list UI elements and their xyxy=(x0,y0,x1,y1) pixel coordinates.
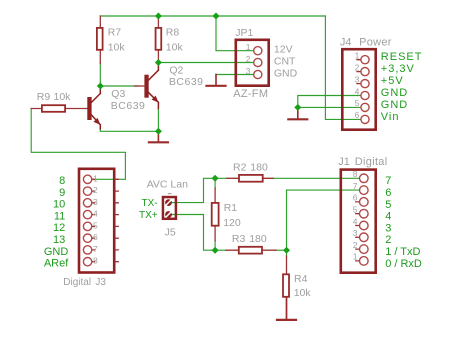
svg-text:8: 8 xyxy=(93,256,98,266)
svg-text:2: 2 xyxy=(385,234,391,246)
svg-text:1: 1 xyxy=(355,51,360,61)
svg-text:GND: GND xyxy=(381,99,408,111)
resistor R7 leads xyxy=(99,16,101,64)
connector J4 box xyxy=(342,49,375,130)
connector J3 pin numbers xyxy=(93,173,98,265)
svg-text:2: 2 xyxy=(246,54,251,64)
resistor R3 leads xyxy=(226,249,276,251)
junction at rail and R8 xyxy=(155,13,162,20)
wire Vin drop to J4 pin 6 xyxy=(325,16,361,119)
ground below R4 xyxy=(286,297,288,319)
wire JP1 pin 2 to Q2 collector xyxy=(158,62,254,64)
svg-text:+5V: +5V xyxy=(381,75,404,87)
svg-text:2: 2 xyxy=(93,185,98,195)
svg-text:12V: 12V xyxy=(274,44,293,56)
svg-text:11: 11 xyxy=(54,211,65,223)
resistor R3 xyxy=(239,247,262,254)
wire Q3 emitter bus to ground xyxy=(100,129,158,132)
svg-text:Power: Power xyxy=(359,37,392,49)
wire node A to R2 xyxy=(215,177,228,179)
svg-text:Q3: Q3 xyxy=(111,88,125,100)
resistor R2 xyxy=(239,175,263,182)
junction at J4 ground node xyxy=(294,104,301,111)
svg-text:180: 180 xyxy=(250,161,268,173)
wire node B to R3 xyxy=(215,249,227,251)
svg-text:6: 6 xyxy=(355,110,360,120)
resistor R4 xyxy=(283,274,289,297)
svg-text:1: 1 xyxy=(93,173,98,183)
svg-text:0 / RxD: 0 / RxD xyxy=(385,258,422,270)
svg-text:12: 12 xyxy=(53,222,65,234)
resistor R9 xyxy=(42,105,65,112)
svg-text:BC639: BC639 xyxy=(111,100,146,112)
svg-text:10k: 10k xyxy=(54,91,72,103)
wire R1 to node B xyxy=(214,240,216,250)
resistor R7 xyxy=(97,28,103,50)
ground near J4 xyxy=(297,107,299,118)
connector J3 pins xyxy=(83,175,118,266)
connector J1 pin numbers xyxy=(353,169,358,262)
svg-text:1: 1 xyxy=(246,42,251,52)
wire R2 to J1 pin 8 xyxy=(272,177,360,179)
wire R7 to Q2 base xyxy=(100,63,138,86)
svg-text:Vin: Vin xyxy=(381,111,400,123)
svg-text:CNT: CNT xyxy=(274,55,296,67)
svg-text:R2: R2 xyxy=(233,161,247,173)
connector J1 box xyxy=(341,170,376,273)
svg-text:6: 6 xyxy=(93,232,98,242)
svg-text:5: 5 xyxy=(385,199,391,211)
svg-text:1: 1 xyxy=(353,252,358,262)
junction at R7 bottom and Q2 base xyxy=(97,83,104,90)
connector JP1 pin 3 xyxy=(254,70,262,78)
resistor R1 xyxy=(212,203,219,226)
svg-text:3: 3 xyxy=(385,222,391,234)
resistor R1 leads xyxy=(214,188,216,241)
svg-text:GND: GND xyxy=(381,87,408,99)
connector J1 pins xyxy=(356,174,368,265)
connector J4 pin numbers xyxy=(355,51,360,121)
svg-text:AZ-FM: AZ-FM xyxy=(233,88,268,100)
svg-text:3: 3 xyxy=(93,197,98,207)
resistor R8 xyxy=(156,28,162,50)
svg-text:4: 4 xyxy=(385,211,391,223)
wire JP1 pin 1 from rail xyxy=(216,16,254,51)
connector J4 pins xyxy=(357,56,369,124)
wire J1 pin 7 to R3 node xyxy=(287,190,360,250)
wire R3 to node C xyxy=(275,249,287,251)
wire TX- to R1 top node xyxy=(172,178,215,202)
svg-text:10: 10 xyxy=(53,199,65,211)
svg-text:J5: J5 xyxy=(165,227,176,239)
wire 12V rail xyxy=(100,15,325,17)
svg-text:TX+: TX+ xyxy=(139,210,158,221)
transistor Q3 xyxy=(88,86,101,129)
svg-text:GND: GND xyxy=(44,246,69,258)
connector J3 box xyxy=(79,169,114,273)
svg-text:GND: GND xyxy=(274,67,298,79)
transistor Q2 xyxy=(135,63,159,109)
ground near JP1 pin 3 xyxy=(215,75,217,85)
connector JP1 pin 2 xyxy=(254,58,262,66)
svg-text:R1: R1 xyxy=(224,202,238,214)
svg-text:ARef: ARef xyxy=(44,258,69,270)
svg-text:9: 9 xyxy=(59,187,65,199)
svg-text:JP1: JP1 xyxy=(235,27,253,39)
ground near Q2 Q3 emitters xyxy=(157,131,159,141)
connector J5 pin 1 xyxy=(165,199,172,206)
svg-text:10k: 10k xyxy=(294,287,312,299)
junction node B R1 bottom xyxy=(212,247,219,254)
svg-text:R4: R4 xyxy=(294,273,308,285)
wire node A to R1 xyxy=(214,178,216,189)
svg-text:AVC Lan: AVC Lan xyxy=(147,178,188,190)
svg-text:Digital: Digital xyxy=(63,277,91,288)
resistor R9 leads xyxy=(31,108,87,110)
wire ground to J4 pin 5 xyxy=(298,106,361,108)
svg-text:4: 4 xyxy=(93,209,98,219)
svg-text:J3: J3 xyxy=(95,277,106,288)
svg-text:+3,3V: +3,3V xyxy=(381,63,415,75)
svg-text:8: 8 xyxy=(353,169,358,179)
wire JP1 pin 3 to ground xyxy=(216,74,254,76)
junction at rail and JP1 drop xyxy=(213,13,220,20)
svg-text:8: 8 xyxy=(59,175,65,187)
svg-text:3: 3 xyxy=(246,66,251,76)
connector J5 pin 1 marker xyxy=(169,193,171,195)
svg-text:2: 2 xyxy=(355,62,360,72)
junction at emitter ground node xyxy=(155,128,162,135)
svg-text:R8: R8 xyxy=(166,26,180,38)
svg-text:120: 120 xyxy=(223,217,241,229)
svg-text:5: 5 xyxy=(353,205,358,215)
svg-text:4: 4 xyxy=(353,216,358,226)
svg-text:Digital: Digital xyxy=(355,156,388,168)
connector JP1 box xyxy=(236,40,269,86)
svg-text:13: 13 xyxy=(53,234,65,246)
svg-text:6: 6 xyxy=(385,187,391,199)
svg-text:5: 5 xyxy=(93,220,98,230)
svg-text:2: 2 xyxy=(353,240,358,250)
wire node C to R4 xyxy=(286,250,288,257)
connector J5 pin 2 xyxy=(165,211,172,218)
connector J5 box xyxy=(163,197,176,219)
svg-text:7: 7 xyxy=(385,175,391,187)
svg-text:TX-: TX- xyxy=(141,198,157,209)
svg-text:10k: 10k xyxy=(108,41,126,53)
svg-text:180: 180 xyxy=(249,233,267,245)
svg-text:7: 7 xyxy=(93,244,98,254)
junction at Q2 collector node xyxy=(155,59,162,66)
svg-text:3: 3 xyxy=(353,228,358,238)
svg-text:R3: R3 xyxy=(232,233,246,245)
resistor R2 leads xyxy=(227,177,273,179)
svg-text:1 / TxD: 1 / TxD xyxy=(385,246,420,258)
svg-text:BC639: BC639 xyxy=(169,76,204,88)
svg-text:3: 3 xyxy=(355,74,360,84)
resistor R8 leads xyxy=(157,16,159,63)
resistor R4 leads xyxy=(286,256,288,318)
svg-text:J4: J4 xyxy=(340,37,352,49)
wire TX+ to R1 bottom node xyxy=(172,215,215,251)
svg-text:Q2: Q2 xyxy=(169,64,183,76)
svg-text:7: 7 xyxy=(353,181,358,191)
wire R9 to J3 pin 1 xyxy=(31,109,125,180)
junction node A R1 top xyxy=(212,175,219,182)
svg-text:R7: R7 xyxy=(108,26,122,38)
wire Q2 emitter down xyxy=(157,108,159,131)
junction node C R4 top xyxy=(283,247,290,254)
svg-text:5: 5 xyxy=(355,98,360,108)
svg-text:6: 6 xyxy=(353,193,358,203)
svg-text:4: 4 xyxy=(355,86,360,96)
svg-text:J1: J1 xyxy=(338,156,350,168)
connector JP1 pin 1 xyxy=(254,47,262,55)
svg-text:10k: 10k xyxy=(166,41,184,53)
wire ground to J4 pin 4 xyxy=(298,96,361,108)
svg-text:R9: R9 xyxy=(37,91,51,103)
svg-text:RESET: RESET xyxy=(381,51,423,63)
